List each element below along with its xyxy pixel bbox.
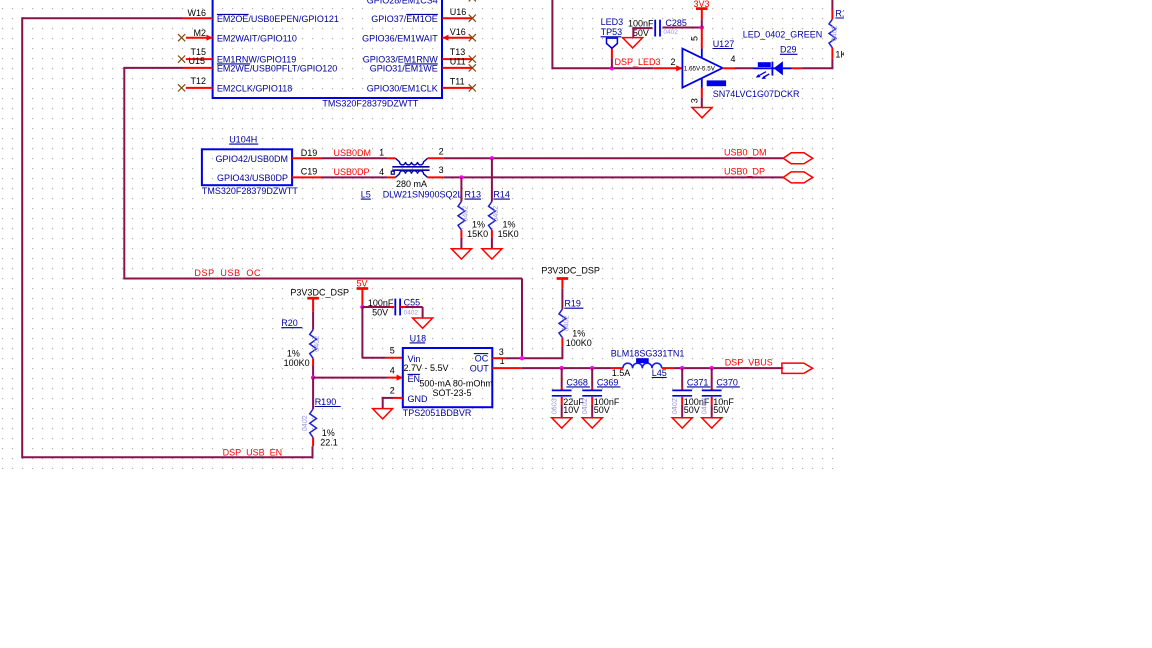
svg-text:50V: 50V — [633, 28, 649, 38]
ground R13 — [451, 249, 471, 259]
port USB0_DM — [783, 153, 813, 164]
svg-text:TP53: TP53 — [601, 27, 623, 37]
svg-text:10V: 10V — [563, 405, 579, 415]
svg-text:DSP_VBUS: DSP_VBUS — [725, 357, 773, 367]
wire to C55 — [362, 306, 390, 308]
svg-text:USB0DM: USB0DM — [334, 148, 372, 158]
port USB0_DP — [783, 172, 813, 183]
wire DSP_LED3 vertical from top — [551, 0, 553, 69]
svg-text:4: 4 — [731, 54, 736, 64]
pin T15 EM1RNW/GPIO119 — [186, 58, 213, 60]
choke L5 pin 1 stub — [388, 157, 396, 159]
pin 3 OC stub — [492, 357, 506, 359]
svg-text:USB0_DP: USB0_DP — [724, 167, 765, 177]
svg-text:EM2OE/USB0EPEN/GPIO121: EM2OE/USB0EPEN/GPIO121 — [217, 14, 339, 24]
svg-text:GPIO28/EM1CS4: GPIO28/EM1CS4 — [367, 0, 438, 5]
choke L5 bottom winding — [396, 171, 428, 178]
ic U18 body — [403, 348, 493, 407]
svg-text:50V: 50V — [594, 405, 610, 415]
wire DSP_USB_OC horizontal — [124, 278, 522, 280]
wire USB0DP to choke — [322, 176, 388, 178]
svg-text:1%: 1% — [472, 219, 485, 229]
svg-text:GPIO43/USB0DP: GPIO43/USB0DP — [217, 173, 288, 183]
svg-text:5: 5 — [690, 36, 700, 41]
choke L5 pin 4 stub — [388, 176, 396, 178]
resistor R131 — [829, 19, 836, 48]
wire USB0DM to choke — [322, 157, 388, 159]
pin D19 stub — [292, 157, 321, 159]
junction R13 on DP — [459, 175, 463, 179]
ground C371 — [672, 418, 692, 428]
svg-text:D19: D19 — [301, 148, 318, 158]
ic U105 TMS320F28379DZWTT body — [213, 0, 442, 98]
wire DSP_USB_OC down to OC pin — [521, 279, 523, 359]
svg-text:1%: 1% — [322, 428, 335, 438]
wire buffer output to LED — [723, 67, 736, 69]
svg-text:100K0: 100K0 — [284, 358, 310, 368]
junction C368 — [560, 366, 564, 370]
svg-text:0402: 0402 — [670, 398, 679, 414]
svg-text:1%: 1% — [287, 348, 300, 358]
no-connect X U16 — [469, 15, 476, 22]
wire EN to U18 pin 4 — [313, 377, 387, 379]
capacitor C369 — [591, 368, 593, 388]
ground C368 — [552, 418, 572, 428]
svg-text:R190: R190 — [315, 397, 337, 407]
wire USB0_DP — [444, 176, 784, 178]
choke L5 pin 2 stub — [428, 157, 444, 159]
svg-text:USB0DP: USB0DP — [334, 167, 370, 177]
svg-text:2: 2 — [439, 147, 444, 157]
svg-text:C285: C285 — [665, 18, 687, 28]
svg-text:D29: D29 — [780, 45, 797, 55]
junction R20/R190/EN — [311, 375, 315, 379]
no-connect X T13 — [469, 56, 476, 63]
wire R20 junction down to R190 — [312, 378, 314, 409]
svg-text:T12: T12 — [190, 76, 206, 86]
svg-text:0402: 0402 — [300, 415, 309, 431]
svg-text:EM2WAIT/GPIO110: EM2WAIT/GPIO110 — [217, 33, 297, 43]
svg-text:U104H: U104H — [229, 135, 257, 145]
ground C55 — [413, 318, 433, 328]
wire OC to R19 — [506, 357, 563, 359]
ic U104H body — [202, 149, 292, 185]
svg-text:U15: U15 — [188, 56, 205, 66]
svg-text:0402: 0402 — [312, 336, 321, 352]
junction C369 — [590, 366, 594, 370]
svg-text:TMS320F28379DZWTT: TMS320F28379DZWTT — [322, 99, 419, 109]
svg-text:EM2CLK/GPIO118: EM2CLK/GPIO118 — [217, 84, 292, 94]
svg-text:0402: 0402 — [830, 25, 839, 41]
svg-text:0603: 0603 — [549, 398, 558, 414]
wire DSP_USB_OC vertical — [123, 67, 125, 280]
wire C285 left to ground — [633, 27, 652, 29]
svg-text:15K0: 15K0 — [498, 229, 519, 239]
svg-text:0402: 0402 — [404, 309, 419, 316]
wire C285 right to 3V3 — [663, 27, 702, 29]
svg-text:1%: 1% — [572, 328, 585, 338]
svg-text:EN: EN — [408, 374, 421, 384]
svg-text:USB0_DM: USB0_DM — [724, 147, 767, 157]
svg-text:EM2WE/USB0PFLT/GPIO120: EM2WE/USB0PFLT/GPIO120 — [217, 64, 337, 74]
svg-text:DLW21SN900SQ2L: DLW21SN900SQ2L — [383, 190, 463, 200]
choke L5 top winding — [396, 158, 428, 165]
svg-text:C19: C19 — [301, 167, 318, 177]
svg-text:C368: C368 — [566, 377, 588, 387]
no-connect X V16 — [469, 34, 476, 41]
junction 3V3/C285 — [700, 25, 704, 29]
svg-text:L5: L5 — [361, 190, 371, 200]
svg-text:W16: W16 — [187, 8, 206, 18]
svg-text:GPIO42/USB0DM: GPIO42/USB0DM — [215, 154, 288, 164]
svg-text:M2: M2 — [193, 28, 206, 38]
svg-text:3: 3 — [439, 165, 444, 175]
svg-text:LED_0402_GREEN: LED_0402_GREEN — [743, 29, 823, 39]
svg-text:3: 3 — [690, 98, 700, 103]
svg-text:1%: 1% — [503, 219, 516, 229]
svg-text:R14: R14 — [493, 190, 510, 200]
svg-text:DSP_USB_EN: DSP_USB_EN — [223, 447, 283, 457]
svg-text:U16: U16 — [450, 7, 467, 17]
svg-text:50V: 50V — [372, 307, 388, 317]
svg-text:0402: 0402 — [663, 29, 678, 36]
junction R14 on DM — [490, 156, 494, 160]
svg-text:SN74LVC1G07DCKR: SN74LVC1G07DCKR — [713, 89, 800, 99]
pin C19 stub — [292, 176, 321, 178]
svg-text:2: 2 — [390, 385, 395, 395]
svg-text:2.7V - 5.5V: 2.7V - 5.5V — [404, 363, 449, 373]
svg-text:U11: U11 — [450, 57, 466, 67]
svg-text:BLM18SG331TN1: BLM18SG331TN1 — [611, 348, 685, 358]
svg-text:L45: L45 — [652, 368, 667, 378]
buffer U127 triangle — [682, 49, 722, 88]
wire U15 to vertical — [124, 67, 182, 69]
svg-text:LED3: LED3 — [601, 17, 624, 27]
pin T11 GPIO30/EM1CLK — [442, 87, 472, 89]
ferrite bead L45 — [612, 367, 623, 369]
svg-text:50V: 50V — [713, 405, 729, 415]
svg-text:R13: R13 — [465, 190, 482, 200]
svg-text:P3V3DC_DSP: P3V3DC_DSP — [541, 266, 600, 276]
wire DSP_LED3 red to buffer input — [653, 67, 682, 69]
svg-text:0402: 0402 — [699, 398, 708, 414]
svg-text:22.1: 22.1 — [320, 438, 338, 448]
open-drain bar — [707, 80, 726, 86]
capacitor C370 — [711, 368, 713, 388]
choke L5 polarity square — [391, 171, 394, 174]
svg-text:T11: T11 — [450, 77, 465, 87]
wire DSP_LED3 horizontal — [552, 67, 653, 69]
wire DSP_USB_EN horizontal — [22, 456, 312, 458]
svg-text:5V: 5V — [356, 278, 367, 288]
svg-text:U18: U18 — [410, 333, 427, 343]
wire W16 to left rail — [22, 17, 182, 19]
capacitor C371 — [681, 368, 683, 388]
ground R14 — [482, 249, 502, 259]
no-connect X T15 — [178, 56, 185, 63]
pin M2 EM2WAIT/GPIO110 — [186, 37, 213, 39]
svg-text:R20: R20 — [281, 318, 298, 328]
ground C285 — [623, 38, 643, 48]
led D29 symbol — [753, 67, 792, 69]
svg-text:4: 4 — [379, 167, 384, 177]
testpoint TP53 stem — [611, 48, 613, 58]
svg-text:0402: 0402 — [580, 398, 589, 414]
wire left rail vertical — [21, 17, 23, 458]
svg-text:280 mA: 280 mA — [396, 179, 427, 189]
no-connect X U11 — [469, 64, 476, 71]
wire USB0_DM — [444, 157, 784, 159]
pin U15 EM2WE/USB0PFLT/GPIO120 — [183, 67, 213, 69]
svg-text:DSP_LED3: DSP_LED3 — [615, 57, 661, 67]
pin W16 EM2OE/USB0EPEN/GPIO121 — [183, 17, 213, 19]
svg-text:TMS320F28379DZWTT: TMS320F28379DZWTT — [202, 186, 299, 196]
svg-text:R19: R19 — [564, 299, 581, 309]
svg-text:C370: C370 — [716, 377, 738, 387]
svg-text:GPIO31/EM1WE: GPIO31/EM1WE — [370, 64, 438, 74]
capacitor C55 — [394, 299, 396, 316]
ground C369 — [582, 418, 602, 428]
svg-text:P3V3DC_DSP: P3V3DC_DSP — [290, 287, 349, 297]
svg-text:GND: GND — [408, 394, 429, 404]
wire 5V down to U18 Vin — [361, 307, 363, 358]
wire up to resistor R131 — [831, 59, 833, 68]
svg-text:OUT: OUT — [470, 364, 490, 374]
svg-text:4: 4 — [390, 366, 395, 376]
pin T12 EM2CLK/GPIO118 — [186, 87, 213, 89]
led D29 package bar — [758, 62, 771, 67]
buffer pin 3 to ground — [701, 78, 703, 88]
svg-text:OC: OC — [475, 353, 489, 363]
svg-text:GPIO37/EM1OE: GPIO37/EM1OE — [371, 14, 438, 24]
wire L45 to DSP_VBUS port — [673, 367, 783, 369]
no-connect X T11 — [469, 84, 476, 91]
wire LED cathode right — [792, 67, 802, 69]
svg-text:2: 2 — [670, 57, 675, 67]
svg-text:5: 5 — [390, 346, 395, 356]
junction TP53 — [610, 66, 614, 70]
svg-text:100K0: 100K0 — [566, 338, 592, 348]
pin U11 GPIO31/EM1WE — [442, 67, 472, 69]
svg-text:SOT-23-5: SOT-23-5 — [433, 388, 472, 398]
port DSP_VBUS — [782, 363, 813, 373]
svg-text:C371: C371 — [687, 377, 709, 387]
svg-text:15K0: 15K0 — [467, 229, 488, 239]
svg-text:TPS2051BDBVR: TPS2051BDBVR — [403, 408, 472, 418]
pin V16 GPIO36/EM1WAIT — [442, 37, 472, 39]
svg-text:0402: 0402 — [461, 206, 470, 222]
testpoint TP53 symbol — [607, 38, 618, 48]
pin 1 OUT stub — [492, 367, 522, 369]
pin 2 GND stub and ground — [393, 397, 403, 399]
wire OUT to L45 — [522, 367, 612, 369]
svg-text:1: 1 — [379, 148, 384, 158]
capacitor C368 — [561, 368, 563, 388]
junction C371 — [680, 366, 684, 370]
svg-text:100nF: 100nF — [628, 18, 654, 28]
junction C370 — [710, 366, 714, 370]
svg-text:U127: U127 — [713, 39, 735, 49]
no-connect X top right — [469, 0, 476, 1]
svg-text:C369: C369 — [597, 377, 619, 387]
wire 3V3 to buffer pin 5 — [701, 28, 703, 49]
no-connect X T12 — [178, 84, 185, 91]
svg-text:0402: 0402 — [491, 206, 500, 222]
junction 5V/C55 — [360, 305, 364, 309]
pin T13 GPIO33/EM1RNW — [442, 58, 472, 60]
ground U127 — [692, 108, 712, 118]
led D29 light arrows — [759, 72, 766, 76]
svg-text:0402: 0402 — [562, 315, 571, 331]
svg-text:DSP_USB_OC: DSP_USB_OC — [194, 268, 261, 278]
wire DSP_USB_EN up to R190 — [312, 446, 314, 458]
svg-text:GPIO30/EM1CLK: GPIO30/EM1CLK — [367, 84, 438, 94]
pin U16 GPIO37/EM1OE — [442, 17, 472, 19]
no-connect X M2 — [178, 34, 185, 41]
svg-text:GPIO36/EM1WAIT: GPIO36/EM1WAIT — [362, 33, 438, 43]
capacitor C285 — [654, 20, 656, 37]
svg-text:V16: V16 — [450, 27, 466, 37]
choke L5 pin 3 stub — [428, 176, 444, 178]
junction OC — [520, 356, 524, 360]
wire C55 right to ground — [400, 306, 405, 308]
ground C370 — [702, 418, 722, 428]
svg-text:50V: 50V — [684, 405, 700, 415]
svg-text:1.65V-5.5V: 1.65V-5.5V — [684, 66, 716, 73]
choke L5 core lines — [392, 166, 429, 168]
